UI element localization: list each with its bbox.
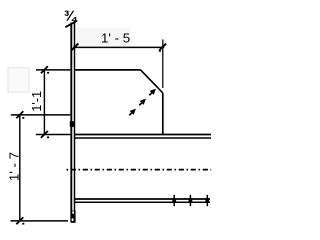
tick serif dot 1'-1 top [47,72,49,74]
plate right edge line [74,21,76,222]
tick serif dot 1'-7 top [22,117,24,119]
extension line right of 1'-5 [162,40,164,89]
extension line gusset top (left of plate) [36,69,70,71]
tick bottom 1'-7 [16,217,23,224]
gusset plate chamfer [141,70,163,93]
bolt tick 2 [189,195,193,206]
bolt tick 1 [172,195,176,206]
beam bottom flange upper line [74,198,210,200]
gusset plate top edge [74,69,140,71]
text mask behind 1'-5 label [77,28,131,46]
gusset plate right edge [162,93,164,135]
brace centerline arrow 3 [149,90,155,96]
tick right end 1'-5 [159,44,166,51]
plate thickness tick (3/4 dim) [65,21,77,27]
dimension line 1'-5 [73,46,164,48]
brace centerline arrow 1 [129,110,135,116]
weld blob on plate at mid height [70,121,75,127]
svg-text:1' - 7: 1' - 7 [6,152,21,181]
extension line beam flange (left of plate) [36,134,71,136]
brace centerline arrow 2 [139,100,145,106]
dimension line 1'-1 [43,70,45,135]
tick serif dot 1'-5 right a [159,50,161,52]
plate left edge line [70,23,72,223]
svg-text:¾: ¾ [64,8,78,25]
tick serif dot 1'-5 left [77,43,79,45]
tick serif dot 1'-1 bottom [47,136,49,138]
bolt tick 3 [205,195,209,206]
selection grip box (light gray) [8,68,29,92]
tick left end 1'-5 [71,44,78,51]
extension line top of 1'-7 [11,114,71,116]
svg-text:1' - 5: 1' - 5 [101,31,130,46]
extension line bottom of 1'-7 [11,220,69,222]
plate bottom end blob [71,211,76,223]
tick bottom 1'-1 [41,131,48,138]
tick top 1'-1 [41,66,48,73]
tick serif dot 1'-5 right b [164,44,166,46]
beam centerline (dash-dot) [67,169,212,171]
beam bottom flange lower line [74,201,210,203]
dimension line 1'-7 [19,115,21,221]
svg-text:1'-1: 1'-1 [29,91,44,112]
beam top flange upper line [74,134,211,136]
tick serif dot 1'-7 bottom [22,223,24,225]
beam top flange lower line [74,137,211,139]
tick top 1'-7 [16,111,23,118]
